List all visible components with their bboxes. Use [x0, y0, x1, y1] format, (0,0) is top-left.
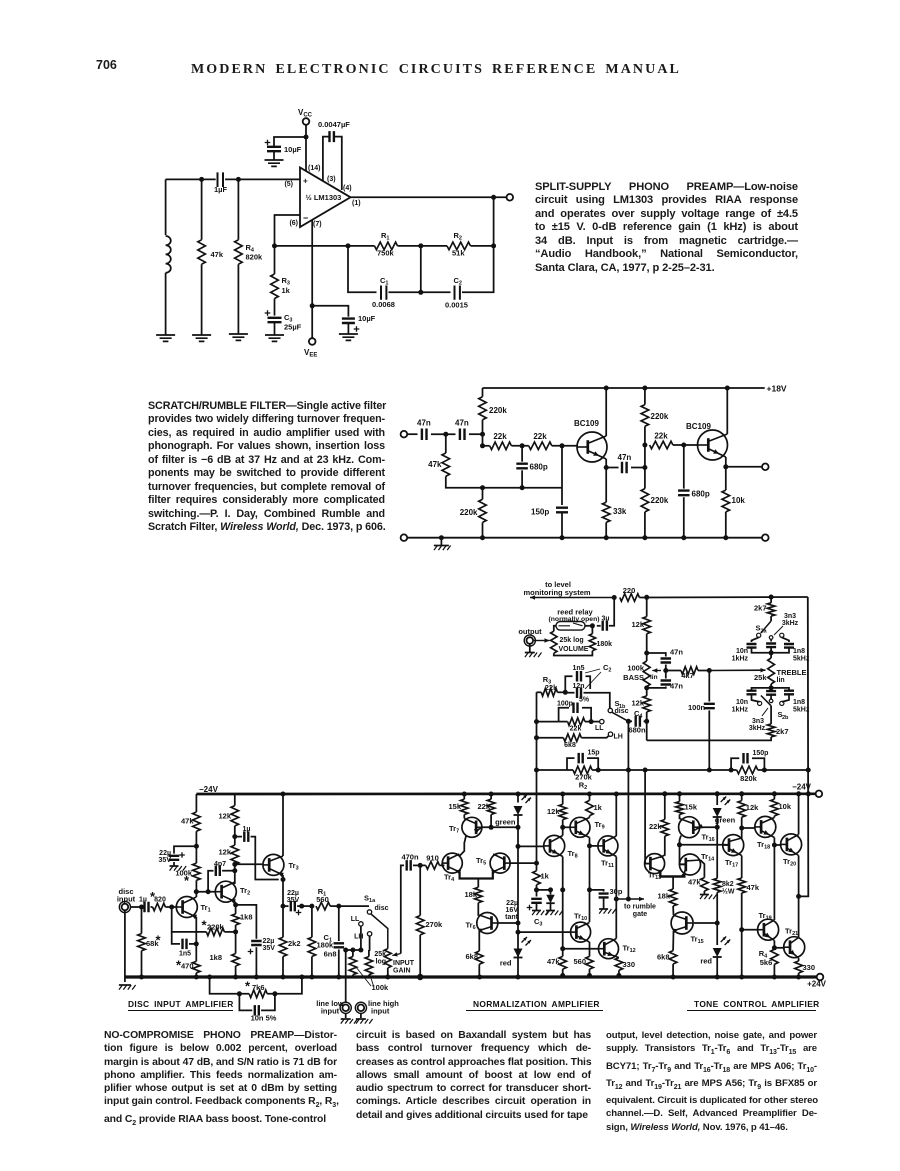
node 220k 1k8 — [233, 929, 238, 934]
transistor Tr19 — [758, 919, 779, 940]
wire 12k a to 12k b — [234, 826, 236, 845]
wire Tr8 emitter down — [562, 857, 564, 957]
label green n — [495, 818, 516, 827]
node bass wiper — [663, 668, 668, 673]
potentiometer 25k TREBLE lin — [768, 658, 775, 684]
ground below disc input — [119, 985, 136, 990]
wire red LED to rail t — [716, 957, 718, 977]
node bottom rail 680p — [681, 535, 686, 540]
pin 7 label — [313, 221, 322, 228]
svg-text:1n8: 1n8 — [793, 699, 805, 706]
resistor 15k t — [676, 802, 684, 815]
svg-text:22k: 22k — [493, 432, 507, 441]
svg-text:input: input — [321, 1007, 340, 1016]
resistor 470 — [193, 961, 201, 972]
wire rail to 12k t — [741, 794, 743, 801]
resistor 100k b — [365, 957, 373, 975]
node Tr2 emitter — [233, 902, 238, 907]
wire S1b to C4 — [628, 720, 632, 722]
label LH disc — [354, 934, 363, 941]
wire 680p to bus — [521, 470, 523, 487]
wire to 1n5 — [172, 932, 180, 944]
node Tr19 base — [739, 927, 744, 932]
plus mark 22u coupling — [296, 910, 302, 916]
svg-text:*: * — [245, 978, 251, 993]
transistor Tr3 — [263, 854, 284, 877]
wire R4 to ground — [237, 264, 239, 334]
wire 47n to 47n — [431, 433, 456, 435]
label 820k — [740, 774, 758, 783]
capacitor 22u 35V (coupling to R1) — [283, 905, 289, 907]
resistor 47k disc — [193, 812, 201, 831]
wire 18k to Tr15 collector — [672, 906, 674, 915]
resistor 47k shunt — [442, 453, 450, 476]
wire down to rail t — [741, 930, 743, 977]
wire emitter bus to 18k t — [672, 877, 674, 890]
svg-text:C1: C1 — [324, 933, 332, 944]
wire to interstage 47n — [606, 467, 618, 469]
capacitor 47n input 2 — [460, 428, 465, 440]
label 18k n — [465, 890, 478, 899]
label C2 with leaders — [585, 663, 611, 689]
node 22k row — [480, 443, 485, 448]
label 22k 3 — [654, 432, 668, 441]
node rail 7k6 right — [299, 975, 304, 980]
wire +24V rail — [125, 975, 817, 978]
node bass top tap — [644, 651, 649, 656]
volume wiper arrow — [534, 638, 550, 642]
svg-text:1µ: 1µ — [243, 826, 251, 833]
wire rail to 1k n — [589, 794, 591, 800]
svg-text:35V: 35V — [263, 945, 276, 952]
mini ground 22u disc — [170, 866, 187, 871]
wire 47k n to rail — [562, 969, 564, 975]
wire C1 to rail — [338, 950, 340, 978]
svg-text:6k8: 6k8 — [657, 953, 670, 962]
node S1b W1 — [626, 768, 631, 773]
label R3 22k — [543, 675, 558, 692]
wire right vertical feed — [799, 597, 809, 896]
svg-text:10µF: 10µF — [358, 314, 376, 323]
svg-text:LH: LH — [614, 734, 623, 741]
wire C1 to node — [389, 291, 421, 293]
pin 6 label — [289, 220, 298, 227]
wire 2k2 to rail — [282, 957, 284, 978]
resistor 180k disc — [308, 937, 316, 956]
capacitor 47n bass top — [647, 653, 666, 657]
svg-text:tant: tant — [505, 914, 519, 921]
wire R2 to output node — [471, 245, 494, 247]
wire to resistor 47k — [201, 179, 203, 239]
node 2k7 top — [769, 595, 774, 600]
wire W1 feedback line right — [758, 769, 808, 771]
resistor 100k line low — [346, 950, 361, 1003]
node Tr8 emitter fb — [560, 887, 565, 892]
label 0.0068 — [372, 300, 395, 309]
potentiometer 100k BASS — [643, 661, 650, 687]
transistor Tr18 — [755, 816, 776, 837]
mini ground 30p — [599, 909, 616, 914]
svg-text:1µ: 1µ — [139, 897, 147, 904]
capacitor 100n — [704, 704, 715, 708]
wire 680p 2 to rail — [683, 497, 685, 538]
node rail 10k t — [772, 791, 777, 796]
node output elbow — [796, 894, 801, 899]
svg-text:3n3: 3n3 — [784, 613, 796, 620]
wire rail to green LED t — [716, 794, 718, 805]
wire Tr2 emitter — [234, 902, 237, 905]
transistor Tr15 — [671, 912, 693, 934]
node rail 2k2 — [281, 975, 286, 980]
svg-text:to rumble: to rumble — [624, 904, 656, 911]
svg-text:22µ: 22µ — [506, 900, 518, 907]
label 680p 2 — [692, 490, 710, 499]
wire Q1 emitter down — [605, 459, 607, 502]
label -24V left — [199, 785, 219, 794]
terminal LL — [600, 719, 604, 723]
label Tr12 — [623, 944, 636, 955]
label 12n — [572, 683, 584, 690]
svg-text:820: 820 — [154, 897, 166, 904]
node Tr15 base — [715, 921, 720, 926]
svg-text:15p: 15p — [588, 750, 600, 757]
label 1k — [282, 286, 291, 295]
node Tr7 22k — [489, 825, 494, 830]
wire volume bottom bus — [554, 651, 593, 656]
wire 47n to bass bottom — [647, 687, 666, 688]
label 47n 2 — [455, 419, 469, 428]
wire Tr6 emitter to 6k8 — [478, 931, 480, 952]
mini ground C3 — [532, 911, 549, 916]
node second stage input — [642, 465, 647, 470]
label 12k chain b — [218, 848, 231, 857]
capacitor 4p7 — [208, 871, 213, 892]
wire 3u up to monitor node — [609, 598, 614, 626]
potentiometer 25k log VOLUME — [551, 631, 557, 653]
svg-text:10k: 10k — [779, 802, 792, 811]
potentiometer 25k log — [384, 949, 391, 968]
wire to Tr19 base — [742, 929, 758, 931]
label 12k chain a — [218, 812, 231, 821]
label Tr8 — [568, 849, 578, 860]
wire green line to Tr10 base — [518, 931, 570, 933]
label 470 — [181, 962, 194, 971]
node rail Q2 collector — [725, 386, 730, 391]
label 2k2 — [288, 939, 301, 948]
label 12k a — [631, 620, 644, 629]
node Q1 emitter 47n — [604, 465, 609, 470]
label 22u 16V tant — [505, 900, 519, 921]
svg-text:R2: R2 — [454, 231, 462, 242]
node Tr1 base — [169, 905, 174, 910]
node bus 100p — [534, 719, 539, 724]
svg-text:22k: 22k — [533, 432, 547, 441]
wire op-amp output — [351, 196, 507, 198]
node line low top — [343, 948, 348, 953]
wire 47k t2 down — [741, 893, 743, 930]
wire 7k6 to rail right — [267, 977, 302, 994]
label 47k disc — [181, 817, 194, 826]
node 12k top — [644, 595, 649, 600]
svg-text:6n8: 6n8 — [324, 950, 337, 959]
wire LED line down t — [716, 817, 718, 875]
wire Tr9 emitter down — [589, 838, 591, 923]
wire R1 to S1a — [330, 905, 369, 907]
svg-text:1n5: 1n5 — [572, 665, 584, 672]
wire 22k to 22k — [511, 445, 528, 447]
label 4p7 — [214, 861, 226, 868]
resistor R1 560 — [316, 902, 330, 910]
wire Tr19 emitter to R4 — [773, 941, 775, 950]
svg-text:4k7: 4k7 — [681, 671, 694, 680]
wire line high to ground — [360, 1013, 362, 1018]
wire Tr16 collector to Tr17 base — [680, 844, 729, 846]
wire bass to 12k b — [646, 687, 648, 696]
svg-text:BC109: BC109 — [574, 419, 599, 428]
svg-text:100n: 100n — [688, 703, 706, 712]
resistor 18k t — [669, 889, 677, 906]
label 1n8 5kHz bottom — [793, 699, 810, 714]
plus mark 22u Tr2 — [248, 949, 254, 955]
svg-text:330: 330 — [623, 960, 636, 969]
svg-text:47n: 47n — [670, 648, 683, 657]
wire Tr1 base bias network — [172, 907, 207, 932]
transistor Tr13 — [645, 854, 665, 875]
mini ground diode — [546, 911, 563, 916]
wire 22k to LL terminal — [585, 721, 599, 723]
wire 180k to rail — [311, 957, 313, 978]
wire relay to 180k node — [585, 625, 592, 627]
label 10uF — [284, 145, 302, 154]
wire pin 6 to feedback node — [275, 215, 301, 246]
wire emitters to 18k n — [477, 879, 479, 888]
wire C2 left lead — [565, 692, 574, 694]
mini ground 47k t1 — [700, 895, 717, 900]
label 47k shunt — [428, 460, 442, 469]
svg-text:22k: 22k — [478, 802, 491, 811]
label Tr13 — [648, 871, 661, 882]
label 3n3 3kHz top — [774, 613, 799, 635]
label LL tone — [595, 725, 604, 732]
disc input terminal — [119, 901, 130, 912]
label lin treble — [777, 677, 785, 684]
label Tr7 — [449, 824, 459, 835]
label 1k8 b — [209, 953, 222, 962]
capacitor 15p — [579, 753, 583, 764]
svg-text:51k: 51k — [452, 249, 465, 258]
node between R1 R2 — [418, 243, 423, 248]
svg-text:S1a: S1a — [364, 894, 376, 905]
wire green LED line down — [517, 815, 519, 976]
node rail 15k n — [462, 792, 467, 797]
node bus W1 — [534, 768, 539, 773]
capacitor 22u 35V (disc bias) — [174, 846, 196, 853]
node Tr21 base tap — [772, 945, 777, 950]
page number 706 — [96, 58, 117, 72]
node LL junction — [358, 948, 363, 953]
resistor 7k6 — [249, 990, 267, 998]
wire W1 feedback line left — [592, 769, 737, 771]
node bass bottom tap — [644, 685, 649, 690]
node rail 1k n — [587, 792, 592, 797]
svg-text:22µ: 22µ — [287, 890, 299, 897]
capacitor 47n interstage — [622, 462, 627, 474]
capacitor C1 0.0068 — [379, 285, 388, 300]
node rail 15k t — [677, 791, 682, 796]
wire Q2 emitter down — [725, 457, 727, 490]
svg-text:3kHz: 3kHz — [782, 620, 799, 627]
label 220 — [623, 586, 636, 595]
diode D1 — [546, 895, 554, 903]
output ground terminal — [762, 534, 769, 541]
label 8k2 halfW t — [722, 881, 735, 896]
wire to Tr9 base — [563, 826, 570, 828]
page title — [0, 62, 886, 78]
label 6k8 LH — [564, 742, 576, 749]
star mark 220k — [201, 917, 207, 932]
capacitor 10n 1kHz (S2a) — [752, 637, 759, 642]
svg-text:NORMALIZATION AMPLIFIER: NORMALIZATION AMPLIFIER — [473, 999, 600, 1009]
label 22u 35V disc — [159, 850, 172, 864]
wire to 680p 2 — [683, 445, 685, 489]
line high input terminal — [355, 1002, 366, 1013]
wire bus to 6k8 — [537, 737, 564, 739]
wire Tr10 emitter to 560 — [589, 942, 591, 956]
wire +18V rail — [483, 387, 765, 389]
input gain wiper arrow — [392, 952, 401, 956]
output terminal preamp — [524, 635, 535, 646]
label Tr4 — [444, 873, 455, 884]
svg-text:green: green — [495, 818, 516, 827]
feedback R2 box (15p / 270k) — [537, 769, 568, 771]
wire 47k to 100k — [195, 831, 197, 863]
wire 330 to rail — [618, 970, 620, 975]
svg-text:47k: 47k — [428, 460, 442, 469]
label S1b — [615, 699, 620, 708]
wire Tr11 emitter down — [615, 857, 617, 939]
wire rail to 220k top right — [644, 388, 646, 405]
bass wiper arrow — [652, 668, 661, 672]
resistor 220k top right — [641, 405, 649, 427]
label 22u 35V Tr2 — [263, 938, 276, 952]
transistor Tr20 — [781, 834, 802, 856]
resistor 6k8 (LH) — [563, 734, 581, 742]
node feedback — [272, 243, 277, 248]
wire 12k node to Tr3 base — [235, 863, 262, 865]
svg-text:3kHz: 3kHz — [749, 725, 766, 732]
svg-text:47k: 47k — [211, 250, 224, 259]
node Q1 base junction — [560, 443, 565, 448]
resistor 1k feedback — [533, 871, 541, 885]
svg-text:Tr7: Tr7 — [449, 824, 459, 835]
plus mark 10uF VEE — [354, 326, 360, 332]
wire Tr15 emitter to 6k8 t — [672, 931, 674, 951]
wire Tr16 collector down — [680, 836, 682, 845]
wire 100p to right node — [582, 708, 591, 722]
label green t — [715, 816, 736, 825]
label 220k top right — [651, 412, 669, 421]
node filter input — [480, 432, 485, 437]
label C4 680n — [628, 709, 646, 735]
label 1n5 — [572, 665, 584, 672]
wire to 680p 1 — [521, 446, 523, 462]
node rail 68k — [139, 975, 144, 980]
caption no-compromise phono preamp col3 — [606, 1029, 817, 1134]
output terminal scratch filter — [762, 464, 769, 471]
label 22k 1 — [493, 432, 507, 441]
wire 22u to mini ground — [173, 862, 175, 866]
resistor R2 51k — [447, 242, 471, 250]
node rail 270k — [417, 974, 423, 980]
svg-text:Tr3: Tr3 — [289, 861, 299, 872]
wire 1u around to Tr3 emitter — [251, 837, 279, 880]
wire 12k t down — [741, 817, 743, 839]
wire 22u to rail — [255, 947, 257, 977]
node Tr1 collector Tr2 base — [194, 889, 199, 894]
capacitor 47n input 1 — [422, 428, 427, 440]
transistor Tr2 — [215, 881, 236, 904]
node VEE junction — [310, 303, 315, 308]
wire 15k to Tr16 emitter — [679, 814, 681, 819]
resistor 12k n — [559, 804, 567, 819]
label 1u loop — [243, 826, 251, 833]
label 47k t1 — [688, 878, 701, 887]
svg-text:16V: 16V — [506, 907, 519, 914]
reed relay (normally open) — [556, 622, 585, 631]
capacitor C3 25uF — [268, 318, 282, 322]
label R4 5k6 — [759, 949, 773, 967]
label S1a — [364, 894, 376, 905]
node rail 180k — [309, 975, 314, 980]
inductor (magnetic cartridge) — [165, 179, 167, 235]
svg-text:+: + — [303, 177, 308, 186]
wire S2b middle cap top — [770, 688, 772, 691]
label 47n interstage — [618, 453, 632, 462]
capacitor 0.0047uF — [330, 131, 334, 142]
wire 100k b top — [368, 950, 370, 957]
capacitor C2b 12n — [577, 687, 581, 698]
label 68k — [146, 939, 159, 948]
wire 15k to Tr7 emitter — [463, 815, 465, 819]
chassis ground scratch filter — [434, 546, 451, 551]
wire 910 to Tr4 base — [440, 864, 445, 866]
label R3 — [282, 276, 290, 287]
label 150p tone — [753, 750, 769, 757]
resistor 2k2 — [279, 937, 287, 956]
capacitor C4 680n — [636, 716, 640, 727]
wire 15p top branch — [567, 758, 575, 770]
LED red (tone) — [713, 937, 731, 958]
node rail 220k — [642, 386, 647, 391]
resistor 220k feedback — [206, 928, 224, 936]
label 1k n — [594, 803, 603, 812]
wire rail to 15k n — [463, 794, 465, 799]
node Tr18 base tap — [739, 826, 744, 831]
wire Q2 collector to rail — [726, 388, 728, 434]
label C3 tant — [534, 917, 542, 928]
wire 100k a to rail — [352, 975, 354, 977]
wire inductor to ground — [165, 273, 167, 335]
label Tr3 — [289, 861, 299, 872]
pin 3 label — [327, 176, 336, 183]
switch S1a disc — [367, 910, 388, 949]
label to level monitoring system — [523, 580, 590, 597]
resistor 820k — [737, 766, 758, 774]
svg-text:Tr17: Tr17 — [725, 858, 738, 869]
label 1k feedback — [541, 872, 550, 881]
label BC109 1 — [574, 419, 599, 428]
resistor 22k 1 — [490, 442, 512, 450]
